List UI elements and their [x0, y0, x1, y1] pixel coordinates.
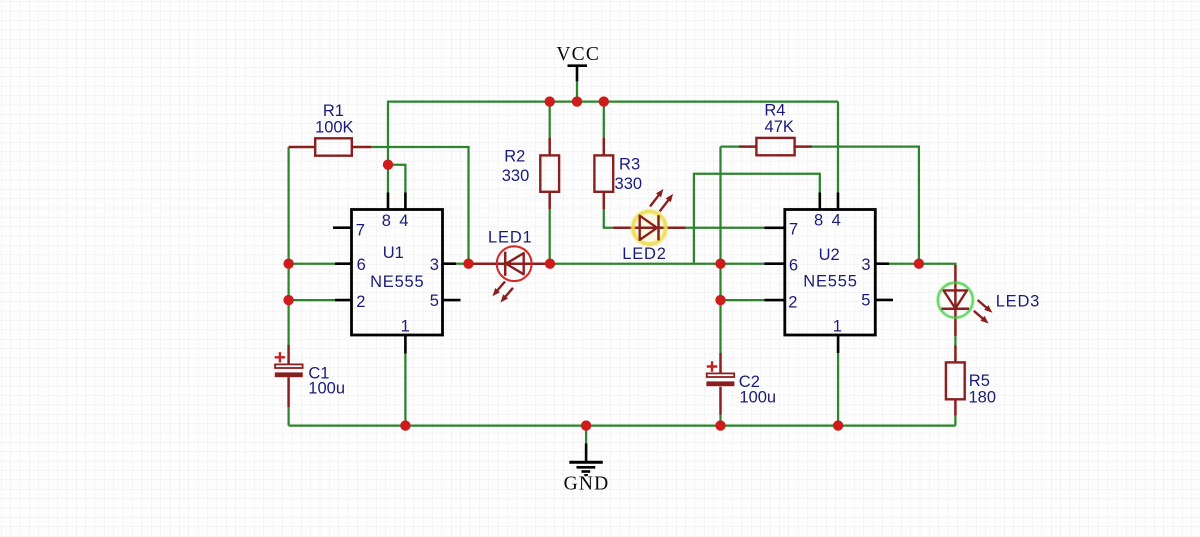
node bottom rail / U2 pin 1 junction — [833, 420, 843, 430]
svg-text:1: 1 — [833, 317, 842, 335]
svg-text:GND: GND — [564, 473, 610, 494]
node U2 pin 3 / R4 junction — [914, 259, 924, 269]
svg-text:R4: R4 — [764, 101, 785, 119]
svg-text:2: 2 — [788, 293, 797, 311]
svg-text:47K: 47K — [765, 118, 794, 136]
node bottom rail / GND junction — [581, 420, 591, 430]
wire VCC top rail — [388, 100, 838, 102]
wire R5 to bottom rail — [954, 416, 956, 426]
svg-text:LED3: LED3 — [996, 293, 1040, 311]
svg-text:8: 8 — [382, 212, 391, 230]
IC U2 pin 7 stub — [764, 227, 785, 230]
IC U2 pin 4 stub — [837, 193, 840, 210]
svg-text:5: 5 — [861, 292, 870, 310]
wire left rail to U1 pin 2 — [289, 299, 335, 301]
wire R4 left rail down to C2 — [719, 147, 721, 354]
svg-text:100u: 100u — [739, 389, 776, 407]
node VCC rail / VCC flag junction — [572, 96, 582, 106]
IC U1 pin 4 stub — [404, 193, 407, 210]
IC U1 pin 7 stub — [333, 226, 352, 229]
node rail2 / U2 pin 6 junction — [715, 259, 725, 269]
svg-text:2: 2 — [356, 293, 365, 311]
svg-text:100u: 100u — [308, 379, 345, 397]
LED LED2 (yellow) — [613, 189, 686, 263]
svg-text:R1: R1 — [323, 102, 344, 120]
IC U1 pin 5 stub — [443, 299, 461, 302]
wire R3 bottom to LED2 — [604, 209, 613, 227]
wire left rail R1 to C1 — [287, 147, 289, 346]
svg-text:1: 1 — [401, 318, 410, 336]
wire C2 to bottom rail — [719, 415, 721, 426]
svg-text:VCC: VCC — [556, 44, 600, 65]
svg-text:NE555: NE555 — [370, 273, 424, 291]
capacitor C2 (polarized 100u) — [706, 353, 776, 415]
IC U1 pin 8 stub — [387, 193, 390, 210]
wire U2 pin 1 to bottom rail — [837, 353, 839, 426]
IC U2 pin 1 stub — [837, 335, 840, 353]
svg-text:U2: U2 — [819, 246, 840, 264]
wire branch to U1 pin 4 — [388, 165, 405, 193]
node U1 pin 3 junction — [463, 259, 473, 269]
wire left rail to U1 pin 6 — [289, 263, 335, 265]
svg-text:R5: R5 — [969, 372, 990, 390]
svg-text:3: 3 — [430, 256, 439, 274]
wire U2 pin 3 junction to LED3 branch — [889, 264, 955, 267]
wire bottom ground rail — [289, 424, 956, 426]
wire LED3 to R5 — [954, 336, 956, 347]
IC U2 pin 2 stub — [764, 299, 785, 302]
wire top rail down to U2 pin 4 — [837, 102, 839, 193]
svg-text:6: 6 — [357, 256, 366, 274]
node rail2 / U2 pin 2 junction — [715, 295, 725, 305]
wire C1 to bottom rail — [287, 407, 289, 426]
IC U1 NE555 body and labels — [352, 210, 443, 336]
resistor R2 — [502, 138, 559, 209]
ground GND — [564, 444, 610, 495]
wire LED2 to U2 pin 7 — [686, 227, 765, 229]
resistor R5 — [946, 345, 996, 415]
resistor R1 — [289, 102, 371, 156]
resistor R4 — [739, 101, 812, 155]
wire rail2 to U2 pin 2 — [721, 299, 765, 301]
wire top rail to R3 — [603, 102, 605, 138]
svg-text:R2: R2 — [504, 147, 525, 165]
power flag VCC — [556, 44, 600, 81]
IC U2 NE555 body and labels — [785, 210, 876, 336]
wire R4 right to U2 pin 3 junction — [812, 147, 919, 264]
wire U1 pin 3 to LED1 — [453, 263, 469, 265]
wire R1 right to U1 pin 3 column — [371, 147, 469, 264]
node left rail / U1 pin 2 junction — [283, 295, 293, 305]
capacitor C1 (polarized 100u) — [275, 345, 345, 407]
svg-text:100K: 100K — [315, 119, 354, 137]
IC U1 pin 2 stub — [335, 299, 352, 302]
svg-text:5: 5 — [430, 292, 439, 310]
node left rail / U1 pin 6 junction — [283, 259, 293, 269]
svg-text:U1: U1 — [383, 244, 404, 262]
wire LED1 to U2 pin 6 — [554, 263, 764, 265]
IC U2 pin 8 stub — [818, 193, 821, 210]
wire top rail down to U1 pin 8 — [387, 101, 389, 193]
IC U1 pin 1 stub — [404, 335, 407, 354]
svg-text:4: 4 — [832, 212, 841, 230]
svg-text:NE555: NE555 — [803, 273, 857, 291]
wire tee up and over to U2 pin 8 — [694, 174, 820, 264]
svg-text:R3: R3 — [619, 155, 640, 173]
resistor R3 — [594, 138, 642, 209]
svg-text:3: 3 — [861, 256, 870, 274]
LED LED3 (green) — [938, 265, 1040, 336]
svg-text:7: 7 — [789, 221, 798, 239]
svg-text:7: 7 — [356, 221, 365, 239]
wire bottom rail to GND symbol — [585, 426, 587, 444]
node LED1 / R2 junction — [545, 259, 555, 269]
svg-text:330: 330 — [615, 175, 643, 193]
LED LED1 (red) — [469, 229, 555, 303]
wire U1 pin 1 to bottom rail — [404, 354, 406, 426]
node VCC rail / R3 junction — [599, 96, 609, 106]
wire R2 bottom to LED1 junction — [549, 209, 551, 263]
node bottom rail / C2 junction — [715, 420, 725, 430]
IC U1 pin 6 stub — [335, 262, 352, 265]
wire VCC symbol stem to top rail — [576, 81, 578, 101]
svg-text:180: 180 — [969, 388, 997, 406]
IC U2 pin 3 stub — [875, 262, 889, 265]
svg-text:6: 6 — [789, 256, 798, 274]
svg-text:330: 330 — [502, 167, 530, 185]
wire top rail to R2 — [549, 102, 551, 138]
IC U2 pin 6 stub — [764, 262, 785, 265]
svg-text:8: 8 — [814, 212, 823, 230]
node VCC rail / R2 junction — [545, 96, 555, 106]
node bottom rail / U1 pin 1 junction — [400, 420, 410, 430]
node U1 pins 8-4 junction — [383, 160, 393, 170]
IC U1 pin 3 stub — [443, 262, 457, 265]
svg-text:LED2: LED2 — [622, 245, 666, 263]
svg-text:4: 4 — [399, 212, 408, 230]
svg-text:LED1: LED1 — [488, 229, 532, 247]
IC U2 pin 5 stub — [875, 299, 893, 302]
wire R4 lead left corner — [721, 145, 740, 147]
